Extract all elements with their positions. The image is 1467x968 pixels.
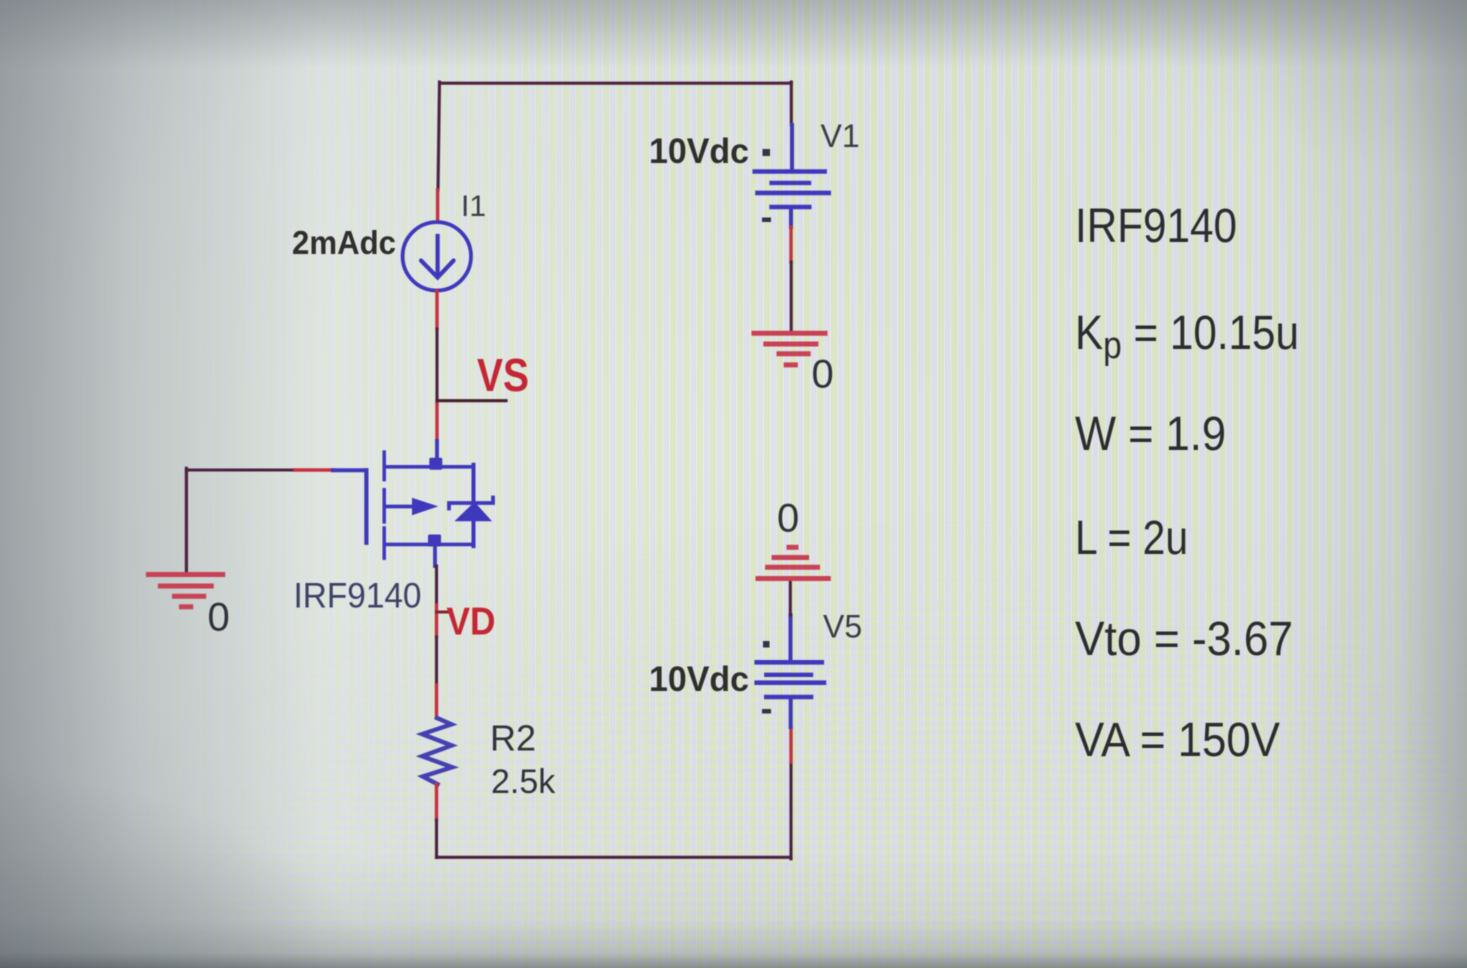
- channel dash 1: [382, 452, 386, 480]
- svg-text:0: 0: [777, 497, 799, 541]
- right bulk bar: [472, 465, 476, 546]
- drain stub bottom: [386, 543, 474, 547]
- svg-text:I1: I1: [461, 190, 486, 223]
- channel dash 2: [382, 490, 386, 522]
- svg-text:W = 1.9: W = 1.9: [1075, 408, 1226, 461]
- wire gate red stub: [295, 468, 333, 471]
- V5 minus marker: [762, 709, 771, 714]
- wire top horizontal: [440, 82, 792, 85]
- source V5: [757, 615, 824, 727]
- svg-text:VS: VS: [477, 349, 529, 401]
- wire red stub above R2: [435, 685, 438, 718]
- wire V1 to ground: [790, 262, 793, 331]
- body diode triangle: [454, 502, 492, 522]
- wire red stub below I1: [435, 291, 438, 329]
- wire red stub above I1: [436, 190, 439, 222]
- svg-text:V5: V5: [823, 609, 862, 645]
- ground 0 left: [148, 575, 222, 607]
- transistor M1 IRF9140: [366, 452, 493, 558]
- ground 0 below V1: [754, 333, 825, 365]
- gate bar: [364, 470, 368, 543]
- svg-text:Kp = 10.15u: Kp = 10.15u: [1075, 307, 1299, 367]
- svg-text:2mAdc: 2mAdc: [292, 224, 396, 261]
- wire blue pin below transistor: [433, 546, 437, 566]
- current source I1: [403, 222, 471, 290]
- V1 minus marker: [762, 218, 771, 223]
- wire blue pin to transistor: [435, 441, 439, 464]
- svg-text:Vto = -3.67: Vto = -3.67: [1075, 613, 1293, 666]
- ground 0 above V5 (inverted): [758, 547, 828, 578]
- wire red stub below V1: [789, 227, 792, 262]
- svg-text:IRF9140: IRF9140: [1075, 200, 1237, 253]
- parameter text block: [1075, 200, 1299, 767]
- source V1: [755, 125, 829, 227]
- wire V5 to ground above: [789, 578, 792, 615]
- channel dash 3: [382, 528, 386, 558]
- wire bottom horizontal: [437, 856, 792, 859]
- wire gate maroon: [186, 468, 295, 471]
- svg-text:10Vdc: 10Vdc: [649, 660, 749, 699]
- resistor R2: [422, 718, 452, 784]
- svg-text:0: 0: [812, 353, 834, 397]
- source stub top: [386, 465, 474, 469]
- wire gate blue lead: [333, 468, 366, 472]
- wire bottom right vertical: [789, 762, 792, 859]
- wire R2 to bottom: [435, 820, 438, 858]
- svg-text:IRF9140: IRF9140: [294, 577, 422, 616]
- junction square top: [429, 458, 442, 470]
- wire red stub below transistor: [435, 605, 438, 637]
- node VD stub: [437, 611, 450, 614]
- svg-text:L = 2u: L = 2u: [1075, 512, 1188, 565]
- wire red stub above Q source: [435, 404, 438, 441]
- svg-text:0: 0: [208, 596, 230, 640]
- wire left vertical upper: [438, 82, 440, 190]
- body diode cathode: [449, 498, 493, 509]
- svg-text:R2: R2: [490, 718, 536, 759]
- wire I1 to VS node: [435, 329, 438, 404]
- wire red stub below V5: [789, 727, 792, 762]
- V1 plus marker: [763, 149, 771, 156]
- wire right vertical top: [790, 82, 793, 125]
- wire VD to R2: [435, 637, 438, 685]
- svg-text:2.5k: 2.5k: [491, 763, 556, 801]
- wire transistor to VD: [435, 566, 438, 605]
- bulk stub + arrow: [386, 505, 415, 509]
- svg-text:VA = 150V: VA = 150V: [1075, 714, 1280, 767]
- svg-text:10Vdc: 10Vdc: [649, 132, 749, 171]
- junction square bottom: [428, 535, 441, 547]
- V5 plus marker: [763, 641, 770, 648]
- wire red stub below R2: [435, 784, 438, 820]
- node VS stub: [437, 399, 506, 402]
- svg-text:VD: VD: [447, 601, 496, 644]
- wire ground riser: [185, 468, 188, 572]
- svg-text:V1: V1: [821, 118, 860, 154]
